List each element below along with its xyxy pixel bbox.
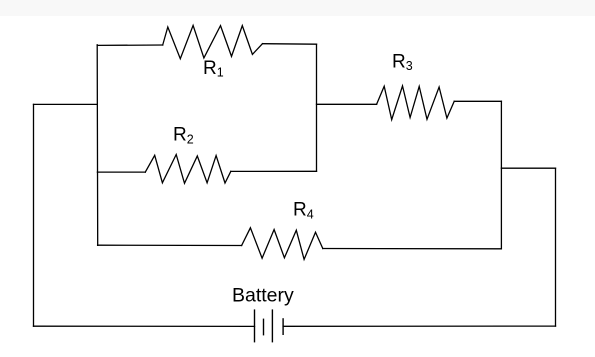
wire: left branch horizontal (34, 103, 98, 105)
battery B1 (255, 310, 284, 342)
wire: right vertical of parallel block (316, 44, 318, 171)
wire: R2 right lead (231, 170, 317, 172)
wire: outer right vertical (555, 168, 557, 326)
resistor R1 (163, 25, 263, 58)
resistor R2 (145, 155, 231, 184)
wire: R4 left lead (98, 244, 242, 246)
wire: outer left vertical (33, 104, 35, 326)
wire: left vertical of parallel block (96, 45, 99, 246)
wire: right mid vertical (500, 101, 502, 249)
wire: R2 left lead (97, 171, 145, 173)
wire: battery right lead (283, 325, 555, 327)
wire: R1 right lead (263, 43, 317, 46)
wire: battery left lead (34, 325, 255, 327)
resistor R4 (242, 228, 323, 260)
wire: R3 left lead (317, 103, 377, 105)
resistor R3 (377, 86, 455, 120)
wire: R3 right lead (454, 100, 501, 102)
wire: R4 right lead (323, 248, 502, 250)
wire: top lead from left node to R1 (97, 44, 163, 46)
wire: branch to outer right (501, 167, 555, 169)
svg-text:Battery: Battery (232, 284, 294, 306)
